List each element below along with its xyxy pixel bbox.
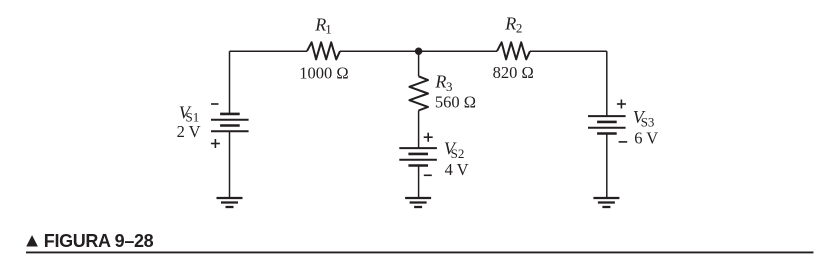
svg-text:1000 Ω: 1000 Ω bbox=[299, 63, 348, 82]
svg-text:820 Ω: 820 Ω bbox=[493, 63, 534, 82]
svg-text:4 V: 4 V bbox=[445, 160, 469, 179]
svg-text:6 V: 6 V bbox=[634, 129, 658, 148]
svg-text:2 V: 2 V bbox=[177, 122, 201, 141]
svg-text:560 Ω: 560 Ω bbox=[435, 93, 476, 112]
svg-text:FIGURA 9–28: FIGURA 9–28 bbox=[44, 231, 154, 251]
